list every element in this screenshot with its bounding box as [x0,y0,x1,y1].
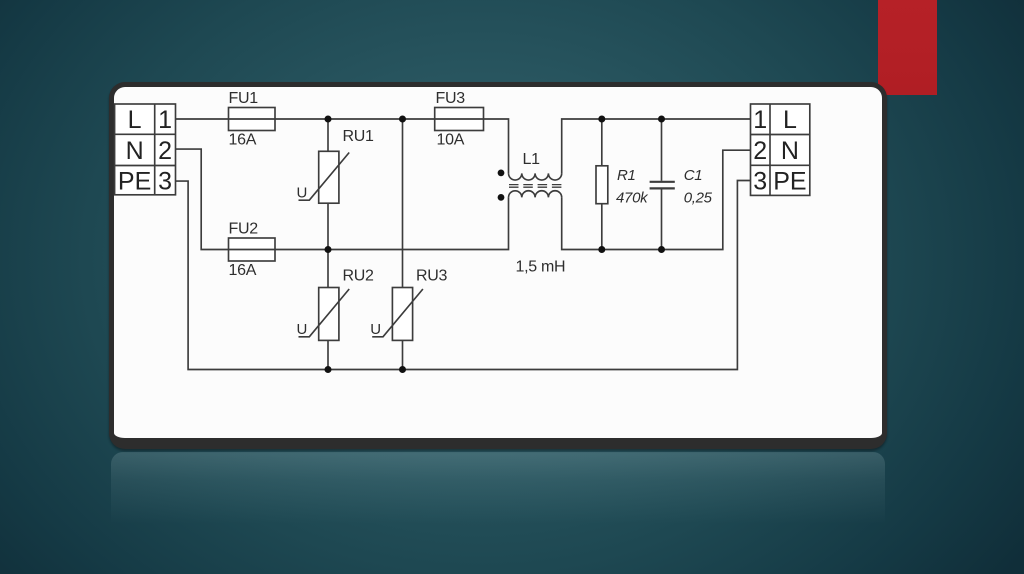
svg-text:RU3: RU3 [416,267,448,284]
fuse FU1 [229,90,276,149]
svg-text:0,25: 0,25 [684,190,713,207]
fuse FU3 [435,90,484,149]
svg-text:1,5 mH: 1,5 mH [516,259,566,276]
terminal block left [115,104,176,195]
white rounded panel [109,82,887,449]
svg-text:FU1: FU1 [229,90,259,107]
svg-text:10A: 10A [437,132,465,149]
varistor RU3 [370,119,447,370]
wire L rail left [176,119,509,173]
svg-text:1: 1 [753,106,767,134]
junction node N-RU1-RU2 [325,246,332,253]
svg-text:PE: PE [773,167,806,195]
svg-text:U: U [297,321,308,338]
choke L1 polarity dot bottom [498,194,505,201]
svg-text:2: 2 [158,137,172,165]
choke L1 core dashes [509,185,562,188]
junction node PE-RU2 [325,366,332,373]
svg-text:16A: 16A [229,132,257,149]
svg-text:N: N [126,137,144,165]
terminal block right [751,104,810,195]
red accent bar [878,0,937,95]
wire N rail right [562,150,751,249]
svg-text:RU1: RU1 [343,128,375,145]
svg-text:L: L [783,106,797,134]
svg-text:R1: R1 [617,167,636,184]
wire L rail right [562,119,751,173]
wire PE rail [176,181,751,370]
resistor R1 [596,119,649,250]
svg-text:FU2: FU2 [229,221,259,238]
junction node L-C1 [658,116,665,123]
choke L1 polarity dot top [498,170,505,177]
svg-text:N: N [781,137,799,165]
choke L1 top winding [509,173,562,180]
svg-text:RU2: RU2 [343,267,375,284]
junction node N-R1 [598,246,605,253]
choke L1 bottom winding [509,191,562,198]
svg-text:C1: C1 [684,167,703,184]
junction node L-R1 [598,116,605,123]
capacitor C1 [650,119,713,250]
varistor RU1 [297,119,375,250]
wire N rail left [176,149,509,249]
junction node PE-RU3 [399,366,406,373]
svg-text:1: 1 [158,106,172,134]
varistor RU2 [297,250,375,370]
reflection of panel [111,452,885,532]
svg-text:L1: L1 [523,151,541,168]
svg-text:3: 3 [753,167,767,195]
junction node L-RU3 [399,116,406,123]
junction node L-RU1 [325,116,332,123]
fuse FU2 [229,221,276,280]
svg-text:U: U [370,321,381,338]
svg-text:16A: 16A [229,262,257,279]
svg-text:FU3: FU3 [436,90,466,107]
svg-text:2: 2 [753,137,767,165]
svg-text:PE: PE [118,167,151,195]
svg-text:U: U [297,185,308,202]
svg-text:L: L [128,106,142,134]
junction node N-C1 [658,246,665,253]
svg-text:470k: 470k [616,190,649,207]
svg-text:3: 3 [158,167,172,195]
